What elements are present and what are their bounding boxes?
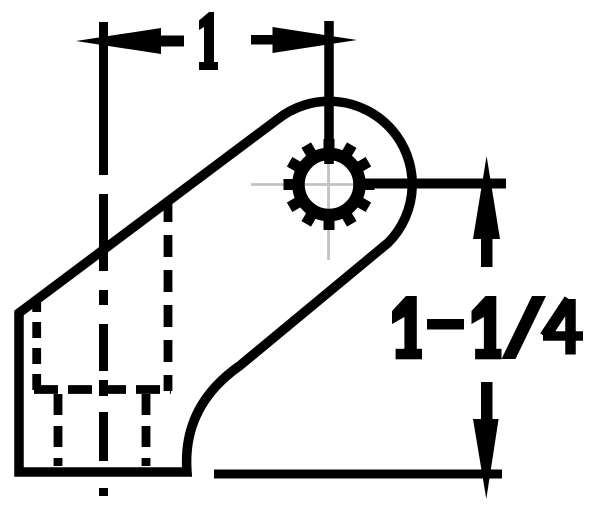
hidden line: through-hole left (dashed) — [54, 392, 63, 466]
dimension text "1" (top) — [199, 12, 218, 70]
dimension: right down arrow — [473, 382, 499, 499]
center line dot — [99, 380, 108, 396]
center line dash — [99, 412, 108, 461]
hole center crosshair (gray) horizontal — [251, 183, 421, 186]
digit 1 (second) — [472, 296, 497, 352]
dimension text "1-1/4" — [392, 296, 583, 359]
hidden line: counterbore bottom (dashed horizontal) — [33, 385, 171, 394]
dimension: bottom extension line — [214, 470, 502, 479]
center line dash — [99, 324, 108, 371]
center line dot below part — [99, 488, 108, 496]
toothed hole: ring — [299, 154, 360, 215]
hidden line: through-hole right (dashed) — [142, 392, 151, 466]
toothed hole: 12 teeth — [284, 139, 375, 230]
center line segment 2 — [99, 194, 108, 271]
digit 1 (first) — [392, 296, 417, 352]
hidden line: counterbore outer right (dashed) — [164, 194, 173, 391]
hole center crosshair (gray) vertical — [327, 148, 330, 260]
part outline — [19, 101, 412, 472]
hyphen — [427, 319, 464, 330]
dimension: top left extension line — [99, 22, 108, 175]
hidden line: counterbore outer left (dashed) — [32, 301, 41, 391]
dimension: right up arrow — [473, 156, 500, 267]
digit 4 — [545, 300, 570, 337]
dimension: top left arrow — [76, 28, 184, 54]
dimension: top right extension line — [324, 21, 334, 164]
center line dash — [99, 290, 108, 305]
slash — [502, 296, 547, 359]
dimension: top right arrow — [251, 27, 357, 53]
dimension: right horizontal line from hole — [355, 179, 506, 189]
